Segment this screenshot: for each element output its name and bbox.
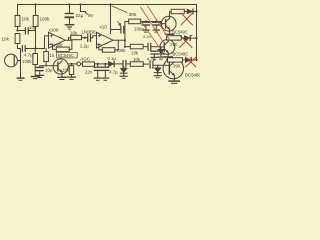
svg-text:22n: 22n	[85, 70, 93, 75]
label 100k R4	[22, 59, 32, 64]
resistor R7 100k feedback U1B	[102, 48, 115, 53]
minus glyph U1A	[50, 43, 52, 45]
red leader line 30k	[112, 6, 127, 13]
wire R14 to C12	[143, 63, 148, 65]
capacitor C12 4.7u series	[150, 61, 153, 68]
svg-text:10k: 10k	[22, 17, 30, 22]
node dot cap A	[145, 20, 147, 22]
capacitor C11 0.1u series	[123, 61, 126, 68]
wire R2 to mic node	[18, 44, 21, 49]
svg-text:22µ: 22µ	[76, 13, 84, 18]
capacitor C4 filter A	[145, 21, 147, 23]
node bias A dot	[16, 29, 18, 31]
svg-text:LM358: LM358	[82, 30, 96, 35]
label 9V	[85, 12, 88, 15]
resistor R6 10k interstage	[71, 35, 82, 39]
microphone MIC1	[5, 54, 18, 67]
wire Q1 emitter	[169, 29, 171, 34]
wire feedback right leg	[69, 40, 72, 49]
wire Q3 emitter	[173, 75, 175, 81]
op-amp U1B triangle	[97, 32, 114, 48]
red diagonal stroke 3	[142, 22, 160, 47]
wire top branch to R8	[125, 21, 129, 23]
diode D2 to ground under Q2	[160, 47, 162, 49]
wire R16 to C8	[40, 62, 46, 68]
svg-text:100k: 100k	[53, 43, 63, 48]
capacitor C5 filter B	[155, 21, 157, 23]
red X over D7	[186, 57, 197, 67]
resistor R13 AGC	[81, 63, 83, 65]
wire U1B minus feedback leg	[97, 44, 103, 50]
svg-text:100k: 100k	[116, 48, 126, 53]
plus glyph U1B	[98, 35, 100, 37]
capacitor C9 22n to ground	[97, 64, 99, 67]
wire Q2 emitter	[167, 52, 169, 56]
svg-text:BC549C: BC549C	[172, 30, 188, 35]
svg-text:390: 390	[173, 64, 181, 69]
red X over D1	[181, 13, 193, 25]
diode D5 to ground	[123, 67, 125, 68]
wire to op-amp U1A plus input	[45, 36, 49, 49]
svg-text:4.7µ: 4.7µ	[24, 53, 33, 58]
capacitor C2 22u rail decoupling	[69, 5, 71, 13]
transistor Q1 circle	[161, 16, 176, 31]
resistor R9 390 top LED	[171, 9, 184, 13]
arrow annotation at 100n	[118, 22, 121, 26]
wire AGC line	[95, 63, 109, 65]
ground under Q1	[166, 33, 174, 35]
ground under R12	[68, 76, 76, 78]
red label 390 mid	[170, 42, 178, 47]
svg-text:x100: x100	[49, 27, 59, 32]
transistor Q2 bar and legs	[163, 43, 165, 52]
resistor R16 1k gain	[45, 49, 47, 52]
svg-text:AGC: AGC	[80, 56, 91, 61]
wire cap to 100k node	[29, 30, 35, 32]
ground under C2	[65, 24, 73, 26]
node dot cap B	[155, 20, 157, 22]
label 10k R1	[22, 17, 30, 22]
wire mic signal up	[17, 49, 20, 61]
diode D7 LED bottom	[183, 59, 186, 61]
wire Q3 collector	[173, 61, 175, 63]
label 4.7u C1	[24, 53, 33, 58]
wire input node	[26, 48, 45, 50]
svg-text:10k: 10k	[131, 51, 139, 56]
svg-text:0.1µ: 0.1µ	[108, 56, 117, 61]
wire mic ground leg	[20, 61, 22, 78]
transistor Q3 bar and legs	[168, 63, 170, 74]
wire U1A minus feedback leg	[49, 44, 57, 49]
label 100n R8	[134, 27, 144, 32]
svg-text:2.2n: 2.2n	[143, 34, 151, 39]
label BC548C	[185, 72, 202, 77]
red label 2.2n	[143, 34, 151, 39]
label 100k R5	[53, 43, 63, 48]
wire C6 to Q2 base	[151, 46, 160, 48]
capacitor C7 to ground under Q2 base	[151, 50, 158, 52]
capacitor C6 coupling mid	[148, 43, 151, 50]
wire top +9V rail	[18, 5, 197, 61]
wire Q4 collector stub	[60, 58, 62, 59]
label 1k R16	[50, 53, 55, 58]
svg-text:4.7µ: 4.7µ	[147, 57, 156, 62]
svg-text:10k: 10k	[133, 57, 141, 62]
svg-text:100k: 100k	[22, 59, 32, 64]
label LM358	[82, 30, 96, 35]
ground under Q3	[169, 80, 179, 82]
label 0.1u	[108, 56, 117, 61]
transistor Q4 circle output buffer	[53, 59, 68, 74]
svg-text:390: 390	[170, 42, 178, 47]
resistor R14 10k AF	[130, 62, 143, 67]
wire R1 to node	[18, 27, 25, 31]
svg-text:100k: 100k	[40, 17, 51, 22]
svg-text:10k: 10k	[2, 37, 10, 42]
label 10k R2	[2, 37, 10, 42]
svg-text:4.7µ: 4.7µ	[109, 70, 118, 75]
diode D4 AGC	[108, 61, 114, 66]
wire output vertical bus	[124, 22, 126, 47]
svg-text:BC549C: BC549C	[173, 51, 189, 56]
red label BC549C mid	[173, 51, 189, 56]
wire rail to R3	[35, 5, 37, 16]
wire R10 to C6	[143, 46, 147, 48]
svg-text:1k: 1k	[50, 53, 55, 58]
resistor R10 10k mid branch	[130, 44, 143, 49]
wire U1B output	[113, 39, 125, 41]
svg-text:30k: 30k	[129, 12, 137, 18]
capacitor C10 4.7u to ground	[104, 64, 106, 67]
resistor R4 100k to ground	[33, 54, 38, 65]
wire +9V tap	[81, 5, 86, 12]
label 10u	[29, 25, 37, 30]
label 10u C8	[45, 68, 53, 73]
label 100k R3	[40, 17, 51, 22]
wire U1A output	[65, 38, 72, 41]
svg-text:BC548C: BC548C	[185, 72, 200, 77]
resistor R11 390 mid LED	[167, 36, 182, 40]
resistor R1 10k (left bias upper)	[15, 16, 20, 27]
capacitor C3 2.2u coupling	[88, 34, 91, 41]
wire C3 to U1B plus input	[91, 36, 97, 38]
label x100	[49, 27, 59, 32]
red diagonal stroke 2	[148, 6, 171, 41]
plus glyph U1A	[50, 35, 52, 37]
svg-text:x10: x10	[100, 25, 108, 30]
label AGC	[80, 56, 91, 61]
wire R8 to Q1 base	[141, 22, 162, 24]
capacitor C8 10u	[36, 66, 43, 68]
wire V+ drop to op-amp U1B	[110, 5, 112, 34]
label BC549C box mid-bottom	[57, 52, 77, 58]
resistor R2 10k (left bias lower)	[15, 34, 20, 44]
label 2.2u C3	[80, 43, 89, 48]
wire Q1 collector	[170, 12, 172, 19]
ground under C5	[153, 29, 159, 31]
svg-text:2.2µ: 2.2µ	[80, 43, 89, 48]
wire left drop from rail	[17, 5, 19, 16]
diode D6 to ground before Q3	[157, 65, 159, 68]
wire Q4 collector to output terminal	[68, 63, 77, 65]
minus glyph U1B	[98, 43, 100, 45]
transistor Q4 bar and legs	[57, 62, 59, 71]
ground under mic	[17, 77, 24, 79]
wire Q4 emitter	[61, 72, 63, 77]
wire mid branch to R10	[125, 46, 130, 48]
red diagonal stroke 1	[141, 7, 165, 43]
wire R3 down to input node	[35, 27, 37, 49]
label 10k R6	[70, 31, 78, 36]
RED ANNOTATIONS	[112, 6, 196, 67]
transistor Q3 circle	[163, 58, 183, 78]
resistor R5 100k feedback U1A	[56, 47, 69, 52]
label x10	[100, 25, 108, 30]
resistor R8 100k top branch	[129, 19, 141, 24]
wire R6 to C3	[82, 37, 87, 39]
ground under C8	[36, 74, 44, 76]
capacitor 100n at V+	[111, 29, 121, 31]
transistor Q2 circle	[160, 40, 175, 55]
red label 30k	[129, 12, 137, 18]
wire feedback right leg U1B	[115, 40, 118, 50]
terminal output jack	[77, 62, 81, 66]
label 4.7u C10	[109, 70, 118, 75]
label 10k R10	[131, 51, 139, 56]
red label BC549C top	[172, 30, 188, 35]
svg-text:10µ: 10µ	[45, 68, 53, 73]
capacitor C1 4.7u input	[22, 46, 25, 52]
label 22n C9	[85, 70, 93, 75]
INK	[2, 3, 202, 83]
resistor R3 100k (bias from rail)	[33, 16, 38, 27]
svg-text:BC549C: BC549C	[58, 53, 74, 58]
capacitor 10u bias	[25, 28, 28, 34]
ground under C4	[143, 29, 149, 31]
transistor Q1 bar and legs	[165, 20, 167, 29]
diode D1 LED top	[184, 11, 187, 13]
diode D3 LED mid	[181, 37, 184, 39]
svg-text:10k: 10k	[70, 31, 78, 36]
ground under Q4	[58, 76, 66, 78]
op-amp U1A triangle	[49, 32, 66, 48]
svg-text:10k: 10k	[62, 68, 70, 73]
ground under Q2	[164, 56, 172, 58]
wire C12 to Q3 base	[153, 64, 163, 66]
red X over D3	[180, 35, 193, 48]
resistor R15 390 bottom LED	[168, 58, 183, 62]
label 100k R7	[116, 48, 126, 53]
junction dot rail R3	[34, 3, 36, 5]
node input dot	[34, 47, 36, 49]
label 22u	[76, 13, 84, 18]
svg-text:9V: 9V	[88, 13, 95, 18]
resistor R12 10k load	[71, 64, 73, 67]
wire Q2 collector	[167, 38, 169, 42]
ground under R4	[31, 76, 39, 78]
